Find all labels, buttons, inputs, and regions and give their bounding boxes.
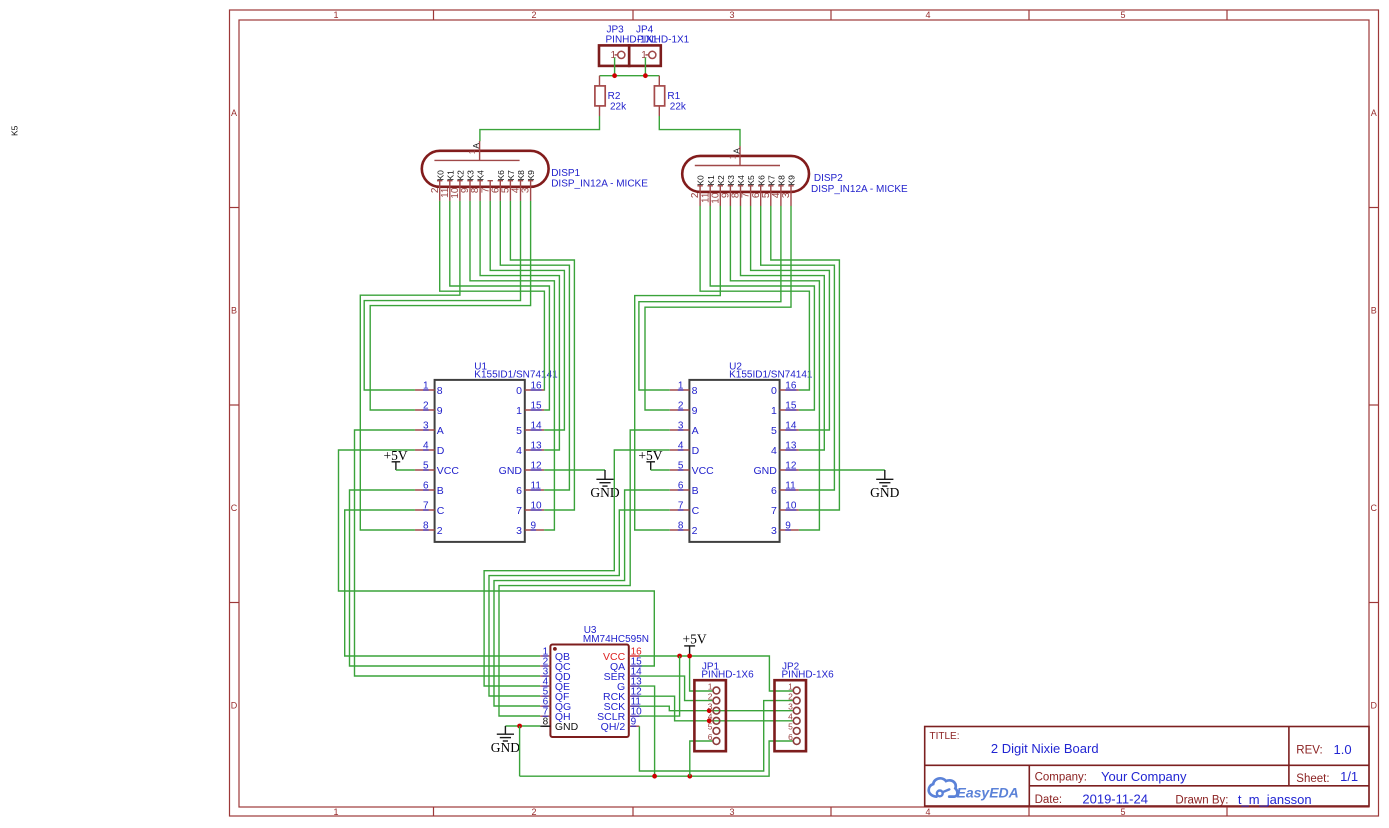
DISP1 pin K5	[488, 181, 493, 201]
DISP2 pin K6	[758, 186, 763, 206]
svg-text:D: D	[1371, 701, 1378, 711]
U1 pin 2 (9)	[415, 409, 435, 411]
svg-text:QH/2: QH/2	[601, 721, 626, 733]
svg-text:K1: K1	[445, 170, 455, 181]
svg-text:1: 1	[771, 405, 777, 417]
U3 pin 11 (SCK)	[629, 705, 640, 707]
svg-text:4: 4	[925, 10, 930, 20]
svg-text:14: 14	[531, 421, 543, 432]
DISP2 pin K9	[788, 186, 793, 206]
svg-text:15: 15	[531, 401, 543, 412]
svg-text:7: 7	[516, 505, 522, 517]
svg-text:6: 6	[771, 485, 777, 497]
svg-text:K1: K1	[706, 175, 716, 186]
svg-text:7: 7	[678, 501, 684, 512]
DISP1 pin K6	[498, 181, 503, 201]
resistor R2	[595, 76, 605, 116]
DISP2 pin K1	[708, 186, 713, 206]
svg-text:2: 2	[437, 525, 443, 537]
svg-text:13: 13	[785, 441, 797, 452]
wire DISP1 K6 to IC output	[500, 201, 569, 490]
svg-text:K4: K4	[476, 170, 486, 181]
JP1 pin 3	[713, 707, 720, 714]
svg-text:3: 3	[729, 10, 734, 20]
svg-text:12: 12	[785, 461, 797, 472]
junction rail/G	[652, 774, 657, 779]
junction at JP4	[643, 73, 648, 78]
U1 pin 12 (GND)	[525, 469, 544, 471]
svg-text:B: B	[1371, 306, 1377, 316]
wire DISP2 K8 to IC left pin	[639, 206, 781, 390]
svg-text:D: D	[692, 445, 700, 457]
U3 pin 10 (SCLR)	[629, 715, 640, 717]
JP2 pin 2	[793, 697, 800, 704]
DISP2 pin K5	[748, 186, 753, 206]
svg-text:9: 9	[531, 521, 537, 532]
wire U3 G to ground rail	[639, 686, 654, 776]
svg-text:+5V: +5V	[683, 631, 707, 646]
svg-text:A: A	[1371, 108, 1377, 118]
U3 pin 5 (QF)	[540, 695, 550, 697]
JP1 pin 4	[713, 717, 720, 724]
svg-text:12: 12	[531, 461, 543, 472]
DISP1 pin K3	[467, 181, 472, 201]
wire bus JP3/JP4 to R2/R1	[600, 75, 660, 77]
wire U1 A to U3 QD	[355, 430, 541, 676]
U2 pin 10 (7)	[780, 509, 799, 511]
svg-text:1: 1	[708, 681, 713, 691]
wire U2 B to U3 QG	[494, 490, 670, 706]
svg-text:5: 5	[708, 722, 713, 732]
svg-text:1/1: 1/1	[1340, 769, 1358, 784]
svg-text:2: 2	[788, 691, 793, 701]
svg-text:1: 1	[611, 50, 617, 61]
header JP1 PINHD-1X6	[694, 680, 726, 751]
header JP2 PINHD-1X6	[775, 680, 807, 751]
svg-text:GND: GND	[491, 740, 520, 755]
wire +5V to U2 VCC	[651, 469, 670, 471]
DISP2 pin K3	[728, 186, 733, 206]
svg-text:K2: K2	[456, 170, 466, 181]
svg-text:K9: K9	[787, 175, 797, 186]
DISP1 pin K9	[528, 181, 533, 201]
svg-text:4: 4	[516, 445, 522, 457]
nixie tube DISP1	[422, 141, 549, 187]
wire U1 GND pin12 to ground	[544, 469, 605, 471]
svg-text:GND: GND	[753, 465, 777, 477]
junction VCC/SCLR	[677, 654, 682, 659]
IC U3 MM74HC595N	[550, 645, 628, 738]
svg-text:1: 1	[468, 149, 477, 154]
JP1 pin 1	[713, 687, 720, 694]
svg-text:1: 1	[333, 807, 338, 817]
junction at JP3	[612, 73, 617, 78]
resistor R1	[654, 76, 664, 116]
svg-text:3: 3	[678, 421, 684, 432]
svg-text:t_m_jansson: t_m_jansson	[1238, 792, 1312, 807]
svg-text:1: 1	[728, 154, 737, 159]
U2 pin 5 (VCC)	[670, 469, 690, 471]
wire U1 C to U3 QB	[345, 510, 541, 656]
svg-text:K5: K5	[746, 175, 756, 186]
U1 pin 11 (6)	[525, 489, 544, 491]
junction RCK at JP1 pin4	[707, 718, 712, 723]
svg-text:16: 16	[531, 381, 543, 392]
U2 pin 16 (0)	[780, 389, 799, 391]
svg-text:7: 7	[771, 505, 777, 517]
wire U3 GND pin8 to ground	[505, 725, 540, 727]
svg-text:K6: K6	[756, 175, 766, 186]
U2 pin 8 (2)	[670, 529, 690, 531]
U3 pin 16 (VCC)	[629, 655, 640, 657]
wire DISP1 K8 to IC left pin	[364, 201, 520, 390]
wire U3 SER to JP1 pin2	[639, 676, 713, 701]
U1 pin 8 (2)	[415, 529, 435, 531]
connector JP4	[629, 45, 661, 66]
DISP1 pin K0	[437, 181, 442, 201]
wire U1 D to U3 QA	[339, 450, 655, 666]
svg-text:DISP2: DISP2	[814, 173, 843, 184]
wire JP3 pin to junction	[614, 58, 616, 76]
svg-text:K6: K6	[496, 170, 506, 181]
svg-text:VCC: VCC	[692, 465, 715, 477]
svg-text:MM74HC595N: MM74HC595N	[583, 634, 649, 645]
wire U2 D to U3 QE	[484, 450, 670, 686]
svg-text:13: 13	[531, 441, 543, 452]
ground GND at U3	[491, 726, 520, 755]
svg-text:B: B	[231, 306, 237, 316]
svg-text:2 Digit Nixie Board: 2 Digit Nixie Board	[991, 741, 1099, 756]
svg-text:5: 5	[1120, 10, 1125, 20]
svg-text:GND: GND	[499, 465, 523, 477]
wire DISP2 K9 to IC left pin	[645, 206, 791, 410]
U1 pin 14 (5)	[525, 429, 544, 431]
U2 pin 4 (D)	[670, 449, 690, 451]
U1 pin 9 (3)	[525, 529, 544, 531]
svg-text:4: 4	[423, 441, 429, 452]
svg-text:1: 1	[678, 381, 684, 392]
wire DISP1 K2 to IC left pin	[360, 201, 460, 530]
JP2 pin 3	[793, 707, 800, 714]
svg-text:PINHD-1X1: PINHD-1X1	[637, 34, 690, 45]
svg-text:TITLE:: TITLE:	[930, 731, 960, 742]
svg-text:GND: GND	[870, 485, 899, 500]
svg-text:K7: K7	[506, 170, 516, 181]
svg-text:K7: K7	[766, 175, 776, 186]
svg-text:Date:: Date:	[1035, 794, 1063, 806]
svg-text:4: 4	[678, 441, 684, 452]
wire DISP2 K2 to IC left pin	[635, 206, 721, 530]
svg-text:PINHD-1X6: PINHD-1X6	[782, 669, 835, 680]
svg-text:K155ID1/SN74141: K155ID1/SN74141	[729, 370, 813, 381]
svg-text:K155ID1/SN74141: K155ID1/SN74141	[474, 370, 558, 381]
DISP1 pin K2	[457, 181, 462, 201]
svg-text:2: 2	[531, 10, 536, 20]
U1 pin 7 (C)	[415, 509, 435, 511]
svg-text:D: D	[437, 445, 445, 457]
IC U2 K155ID1/SN74141	[689, 380, 779, 542]
wire U1 B to U3 QC	[350, 490, 541, 666]
svg-text:1: 1	[788, 681, 793, 691]
wire DISP2 K1 to IC output	[710, 206, 814, 410]
wire DISP1 K1 to IC output	[450, 201, 550, 410]
junction VCC/+5V	[687, 654, 692, 659]
svg-text:GND: GND	[555, 721, 579, 733]
U3 pin 12 (RCK)	[629, 695, 640, 697]
svg-text:3: 3	[708, 702, 713, 712]
svg-text:5: 5	[678, 461, 684, 472]
wire U3 RCK to JP1 pin4 and JP2 pin4	[639, 696, 793, 721]
svg-text:11: 11	[785, 481, 796, 492]
junction SCK at JP1 pin3	[707, 708, 712, 713]
U1 pin 16 (0)	[525, 389, 544, 391]
U1 pin 10 (7)	[525, 509, 544, 511]
U2 pin 1 (8)	[670, 389, 690, 391]
U3 pin 7 (QH)	[540, 715, 550, 717]
svg-text:2: 2	[423, 401, 429, 412]
svg-text:8: 8	[678, 521, 684, 532]
svg-text:B: B	[437, 485, 444, 497]
title block	[925, 727, 1369, 807]
U3 pin 14 (SER)	[629, 675, 640, 677]
wire DISP2 K3 to IC output	[730, 206, 819, 530]
svg-text:K3: K3	[726, 175, 736, 186]
U1 pin 4 (D)	[415, 449, 435, 451]
svg-text:A: A	[692, 425, 699, 437]
svg-text:9: 9	[631, 717, 637, 728]
U1 pin 1 (8)	[415, 389, 435, 391]
wire R2 to DISP1 anode	[480, 116, 600, 141]
U3 pin 13 (G)	[629, 685, 640, 687]
power +5V at U3 VCC	[683, 631, 707, 656]
power +5V at U2 pin5	[638, 448, 662, 470]
U3 pin 8 (GND)	[540, 725, 550, 727]
svg-text:A: A	[471, 143, 481, 149]
svg-text:15: 15	[785, 401, 797, 412]
svg-text:14: 14	[785, 421, 797, 432]
svg-text:9: 9	[437, 405, 443, 417]
wire DISP1 K9 to IC left pin	[370, 201, 530, 410]
svg-text:C: C	[692, 505, 700, 517]
U3 pin 3 (QD)	[540, 675, 550, 677]
wire DISP2 K5 to IC output	[751, 206, 830, 430]
U2 pin 9 (3)	[780, 529, 799, 531]
svg-text:0: 0	[516, 385, 522, 397]
JP2 pin 1	[793, 687, 800, 694]
svg-text:22k: 22k	[610, 102, 627, 113]
DISP2 pin K8	[778, 186, 783, 206]
U2 pin 13 (4)	[780, 449, 799, 451]
svg-text:K4: K4	[736, 175, 746, 186]
U2 pin 15 (1)	[780, 409, 799, 411]
wire DISP1 K5 to IC output	[490, 201, 564, 430]
svg-text:4: 4	[771, 445, 777, 457]
svg-text:3: 3	[788, 702, 793, 712]
svg-text:6: 6	[423, 481, 429, 492]
DISP2 pin K4	[738, 186, 743, 206]
svg-text:5: 5	[1120, 807, 1125, 817]
svg-text:C: C	[231, 503, 238, 513]
wire R1 to DISP2 anode	[659, 116, 740, 146]
U3 pin 1 (QB)	[540, 655, 550, 657]
svg-text:8: 8	[437, 385, 443, 397]
svg-text:1: 1	[516, 405, 522, 417]
svg-text:Company:: Company:	[1035, 772, 1087, 784]
DISP1 pin K7	[508, 181, 513, 201]
svg-text:2019-11-24: 2019-11-24	[1082, 791, 1148, 806]
wire U2 GND pin12 to ground	[799, 469, 885, 471]
svg-text:2: 2	[678, 401, 684, 412]
U3 pin 15 (QA)	[629, 665, 640, 667]
wire DISP1 K4 to IC output	[480, 201, 559, 450]
wire U3 SCLR tied to VCC	[639, 656, 679, 716]
U2 pin 7 (C)	[670, 509, 690, 511]
svg-text:8: 8	[423, 521, 429, 532]
DISP1 pin K8	[518, 181, 523, 201]
svg-text:11: 11	[531, 481, 542, 492]
svg-text:R2: R2	[608, 91, 621, 102]
wire ground rail	[520, 741, 794, 776]
DISP2 pin K7	[768, 186, 773, 206]
wire DISP1 K3 to IC output	[470, 201, 554, 530]
svg-text:VCC: VCC	[437, 465, 460, 477]
svg-text:B: B	[692, 485, 699, 497]
wire DISP2 K6 to IC output	[761, 206, 835, 490]
svg-text:K8: K8	[777, 175, 787, 186]
power +5V at U1 pin5	[384, 448, 408, 470]
svg-text:2: 2	[531, 807, 536, 817]
JP2 pin 6	[793, 738, 800, 745]
wire U3 GND down to ground rail	[519, 726, 521, 776]
svg-text:3: 3	[781, 192, 792, 198]
IC U1 K155ID1/SN74141	[435, 380, 525, 542]
svg-text:Sheet:: Sheet:	[1296, 773, 1329, 785]
svg-text:1.0: 1.0	[1334, 742, 1352, 757]
JP1 pin 5	[713, 728, 720, 735]
DISP1 pin K1	[447, 181, 452, 201]
svg-text:5: 5	[516, 425, 522, 437]
EasyEDA logo	[929, 778, 1019, 800]
U2 pin 2 (9)	[670, 409, 690, 411]
wire +5V to U1 VCC	[396, 469, 415, 471]
svg-text:4: 4	[925, 807, 930, 817]
U1 pin 13 (4)	[525, 449, 544, 451]
svg-text:5: 5	[771, 425, 777, 437]
wire DISP1 K0 to IC output	[440, 201, 545, 390]
connector JP3	[599, 45, 629, 66]
U2 pin 11 (6)	[780, 489, 799, 491]
svg-text:5: 5	[788, 722, 793, 732]
svg-text:3: 3	[516, 525, 522, 537]
svg-text:22k: 22k	[670, 102, 687, 113]
svg-text:6: 6	[788, 732, 793, 742]
svg-text:4: 4	[708, 712, 713, 722]
DISP2 pin K2	[718, 186, 723, 206]
svg-text:6: 6	[708, 732, 713, 742]
svg-text:K0: K0	[435, 170, 445, 181]
svg-text:10: 10	[531, 501, 543, 512]
wire VCC net: U3 pin16 to JP2 pin1	[639, 656, 793, 691]
svg-text:1: 1	[333, 10, 338, 20]
U1 pin 15 (1)	[525, 409, 544, 411]
svg-text:9: 9	[785, 521, 791, 532]
svg-text:Your Company: Your Company	[1101, 769, 1187, 784]
svg-text:3: 3	[771, 525, 777, 537]
svg-text:0: 0	[771, 385, 777, 397]
svg-text:R1: R1	[667, 91, 680, 102]
wire U3 SCK to JP1 pin3 and JP2 pin3	[639, 706, 793, 711]
JP1 pin 6	[713, 738, 720, 745]
svg-text:3: 3	[729, 807, 734, 817]
svg-text:6: 6	[678, 481, 684, 492]
nixie tube DISP2	[682, 146, 809, 192]
U3 pin 6 (QG)	[540, 705, 550, 707]
JP2 pin 4	[793, 717, 800, 724]
wire DISP2 K0 to IC output	[700, 206, 809, 390]
wire U2 A to U3 QH	[499, 430, 670, 716]
svg-text:EasyEDA: EasyEDA	[957, 784, 1019, 800]
svg-text:9: 9	[692, 405, 698, 417]
svg-text:16: 16	[785, 381, 797, 392]
svg-text:2: 2	[708, 691, 713, 701]
svg-text:10: 10	[785, 501, 797, 512]
svg-text:Drawn By:: Drawn By:	[1175, 795, 1228, 807]
U2 pin 12 (GND)	[780, 469, 799, 471]
svg-text:DISP1: DISP1	[551, 168, 580, 179]
wire U3 QH/2 to JP2 pin2	[639, 701, 793, 771]
svg-text:K3: K3	[466, 170, 476, 181]
svg-text:3: 3	[423, 421, 429, 432]
U3 pin 2 (QC)	[540, 665, 550, 667]
svg-text:A: A	[731, 148, 741, 154]
svg-text:K0: K0	[696, 175, 706, 186]
U2 pin 14 (5)	[780, 429, 799, 431]
svg-text:D: D	[231, 701, 238, 711]
wire DISP2 K4 to IC output	[741, 206, 825, 450]
DISP1 pin K4	[477, 181, 482, 201]
svg-text:6: 6	[516, 485, 522, 497]
wire JP1 pin6 to ground rail	[690, 741, 713, 776]
svg-text:REV:: REV:	[1296, 745, 1322, 757]
svg-text:PINHD-1X6: PINHD-1X6	[701, 669, 754, 680]
svg-text:GND: GND	[590, 485, 619, 500]
svg-text:K9: K9	[526, 170, 536, 181]
svg-text:C: C	[1371, 503, 1378, 513]
svg-text:4: 4	[788, 712, 793, 722]
wire JP4 pin to junction	[644, 58, 646, 76]
DISP2 pin K0	[697, 186, 702, 206]
svg-text:7: 7	[423, 501, 429, 512]
svg-text:K2: K2	[716, 175, 726, 186]
svg-text:DISP_IN12A - MICKE: DISP_IN12A - MICKE	[551, 179, 648, 190]
U2 pin 6 (B)	[670, 489, 690, 491]
U1 pin 5 (VCC)	[415, 469, 435, 471]
wire DISP1 K7 to IC output	[510, 201, 574, 510]
U3 pin 9 (QH/2)	[629, 725, 640, 727]
junction U3 GND	[517, 724, 522, 729]
svg-text:DISP_IN12A - MICKE: DISP_IN12A - MICKE	[811, 184, 908, 195]
svg-text:8: 8	[692, 385, 698, 397]
wire U2 C to U3 QF	[489, 510, 670, 696]
svg-text:8: 8	[543, 717, 549, 728]
svg-text:3: 3	[521, 187, 532, 193]
svg-text:2: 2	[692, 525, 698, 537]
junction rail/JP1 pin6	[687, 774, 692, 779]
svg-text:C: C	[437, 505, 445, 517]
JP2 pin 5	[793, 728, 800, 735]
JP1 pin 2	[713, 697, 720, 704]
U1 pin 6 (B)	[415, 489, 435, 491]
